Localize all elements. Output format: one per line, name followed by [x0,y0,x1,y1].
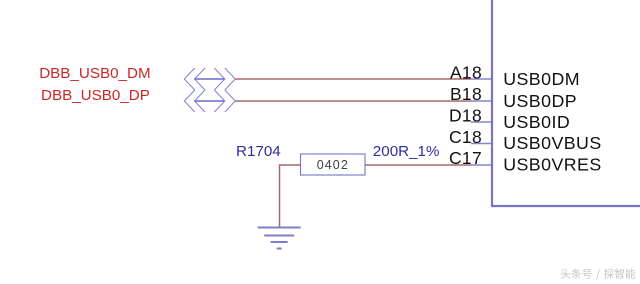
svg-text:A18: A18 [450,63,482,83]
svg-text:D18: D18 [449,105,482,125]
svg-text:B18: B18 [450,84,482,104]
wire net DM [235,78,470,80]
pin stub A18 [470,78,492,80]
svg-text:C18: C18 [449,127,482,147]
svg-text:R1704: R1704 [236,143,281,160]
watermark 头条号 / 探智能 [561,269,636,280]
pin stub C17 [470,164,492,166]
wire resistor right to pin C17 [365,164,470,166]
svg-text:USB0DP: USB0DP [503,91,577,111]
svg-text:DBB_USB0_DP: DBB_USB0_DP [41,87,150,104]
squiggle symbol on net DP [184,90,235,112]
wire resistor left to ground corner [280,165,301,228]
IC body edge U1 [492,0,640,206]
svg-text:0402: 0402 [317,158,349,172]
ground symbol [258,228,301,249]
resistor R1704 body [301,154,366,175]
pin stub C18 [471,143,492,145]
svg-text:USB0DM: USB0DM [503,69,580,89]
svg-text:200R_1%: 200R_1% [373,143,440,160]
svg-text:USB0ID: USB0ID [503,112,570,132]
wire net DP [235,100,470,102]
squiggle symbol on net DM [184,68,235,90]
svg-text:C17: C17 [449,148,482,168]
svg-text:DBB_USB0_DM: DBB_USB0_DM [39,65,150,82]
pin stub B18 [470,100,492,102]
svg-text:USB0VBUS: USB0VBUS [503,133,601,153]
pin stub D18 [471,121,492,123]
svg-text:USB0VRES: USB0VRES [503,155,601,175]
